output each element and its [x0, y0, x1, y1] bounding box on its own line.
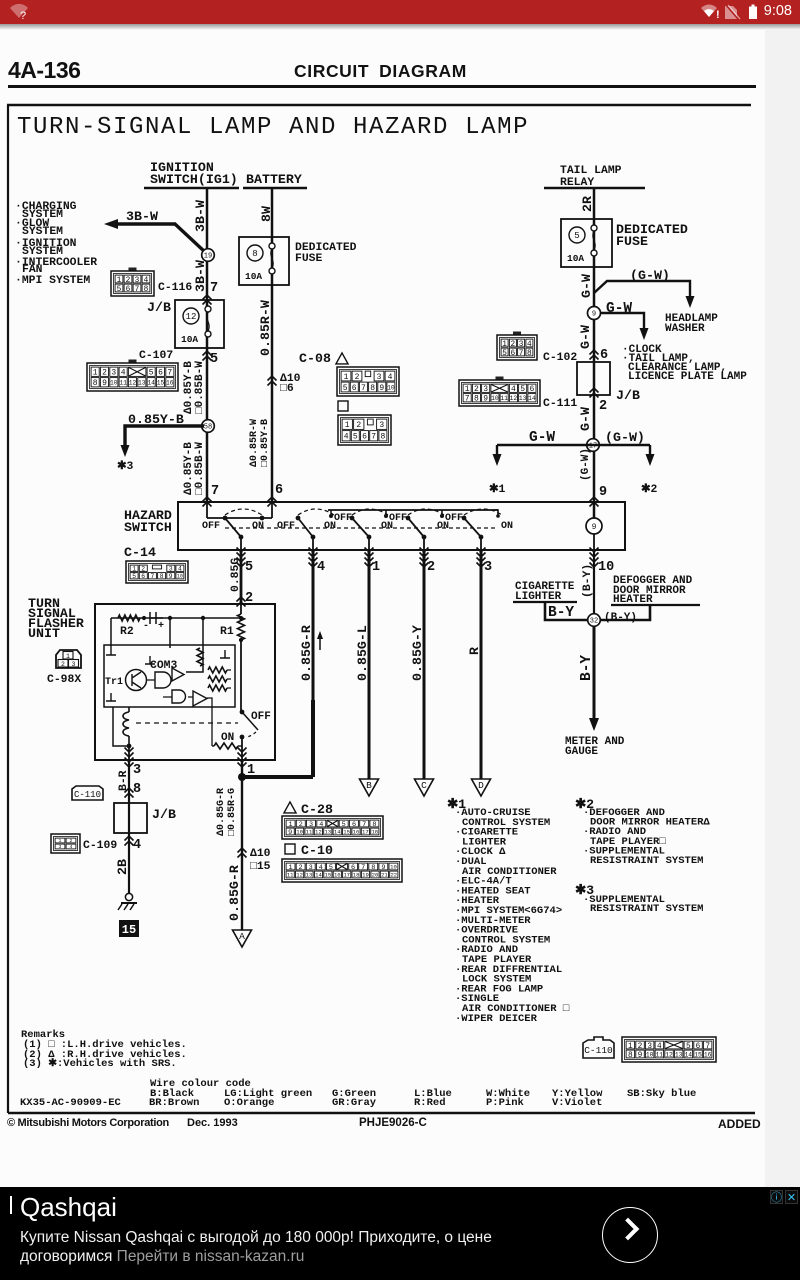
svg-text:8: 8	[370, 384, 375, 393]
hazard lamp 9 wire	[593, 502, 595, 550]
svg-text:3: 3	[111, 369, 116, 378]
svg-text:9: 9	[483, 395, 488, 404]
chevron mid output wire	[238, 848, 247, 858]
svg-text:6: 6	[511, 350, 516, 358]
svg-text:G-W: G-W	[579, 274, 594, 298]
svg-text:(B-Y): (B-Y)	[604, 612, 637, 624]
svg-text:G-W: G-W	[606, 301, 632, 317]
svg-text:4: 4	[344, 433, 349, 442]
svg-text:0.85G-L: 0.85G-L	[355, 625, 370, 681]
svg-text:(3) ✱:Vehicles with SRS.: (3) ✱:Vehicles with SRS.	[23, 1057, 177, 1070]
triangle connector C	[415, 779, 434, 796]
wire 0.85Y-B branch left with arrow *3	[125, 426, 204, 448]
svg-text:B: B	[366, 780, 372, 791]
flasher pin1 exit chevrons	[238, 748, 247, 758]
svg-text:6: 6	[696, 1043, 701, 1051]
svg-text:B-Y: B-Y	[548, 605, 574, 621]
svg-text:4: 4	[121, 369, 126, 378]
svg-text:1: 1	[628, 1043, 633, 1051]
svg-text:13: 13	[324, 829, 331, 836]
connector C-109	[51, 834, 80, 853]
triangle ref C-08	[336, 353, 348, 364]
svg-text:6: 6	[600, 348, 608, 363]
svg-text:8: 8	[144, 286, 149, 294]
flasher pin3 exit chevrons	[125, 748, 134, 758]
node 17	[587, 439, 600, 452]
wire B-Y to meter	[593, 627, 596, 721]
wire tail lamp vertical	[593, 188, 596, 518]
svg-text:4: 4	[388, 373, 393, 382]
svg-text:13: 13	[675, 1051, 683, 1058]
connector C-110 bottom	[622, 1037, 716, 1062]
hazard sw3 dashed arc	[352, 509, 388, 515]
svg-text:9: 9	[288, 829, 292, 837]
connector C-107	[129, 360, 137, 364]
tail lamp relay bus bar	[544, 187, 645, 190]
resistor ladder h1	[208, 667, 227, 673]
svg-text:✱1: ✱1	[489, 483, 506, 496]
svg-text:G-W: G-W	[529, 430, 555, 446]
svg-text:C-14: C-14	[124, 545, 156, 560]
buffer triangle	[193, 691, 207, 706]
svg-text:8: 8	[93, 379, 98, 388]
svg-text:2: 2	[126, 277, 131, 285]
coil left link	[113, 707, 129, 746]
svg-text:12: 12	[129, 380, 137, 387]
hazard sw3 output wire	[368, 537, 370, 550]
svg-text:C-08: C-08	[299, 351, 331, 366]
hazard wire7 stub	[206, 502, 208, 518]
svg-text:10A: 10A	[181, 334, 198, 345]
android status bar	[0, 0, 800, 24]
wire drop *2	[649, 445, 651, 457]
hazard pin3 exit chevron	[477, 548, 486, 558]
connector C-98X	[56, 650, 81, 668]
svg-text:+: +	[158, 621, 164, 632]
svg-text:BR:Brown: BR:Brown	[149, 1097, 199, 1109]
svg-text:7: 7	[371, 433, 376, 442]
svg-text:4: 4	[178, 566, 182, 573]
svg-text:LICENCE PLATE LAMP: LICENCE PLATE LAMP	[628, 371, 747, 383]
node 9 circle	[588, 307, 601, 320]
svg-text:4: 4	[317, 560, 325, 575]
svg-text:10: 10	[177, 574, 183, 580]
svg-text:11: 11	[287, 872, 294, 879]
flasher switch lever	[242, 712, 258, 730]
svg-text:2R: 2R	[580, 196, 595, 212]
svg-text:5: 5	[245, 560, 253, 575]
svg-text:SWITCH(IG1): SWITCH(IG1)	[150, 172, 238, 187]
hazard bus bar upper	[328, 509, 498, 511]
svg-text:3: 3	[379, 421, 384, 430]
connector C-102	[513, 332, 521, 336]
svg-text:9: 9	[169, 573, 173, 580]
svg-text:3: 3	[519, 341, 524, 349]
svg-text:3: 3	[59, 844, 62, 850]
junction block lower box	[114, 803, 147, 833]
arrow up on 0.85G-R wire	[319, 634, 321, 650]
svg-text:10: 10	[646, 1051, 654, 1058]
resistor R1	[240, 604, 242, 614]
svg-text:□6: □6	[280, 383, 294, 395]
svg-text:A: A	[239, 931, 245, 942]
svg-text:5: 5	[502, 350, 507, 358]
svg-text:2: 2	[427, 560, 435, 575]
connector C-110 small	[72, 786, 103, 800]
svg-text:10: 10	[110, 380, 118, 387]
svg-text:10: 10	[598, 560, 614, 575]
svg-text:FUSE: FUSE	[616, 234, 648, 249]
svg-text:9: 9	[599, 485, 607, 500]
svg-text:C-98X: C-98X	[47, 674, 81, 686]
svg-text:OFF: OFF	[334, 513, 352, 524]
svg-text:8: 8	[628, 1052, 633, 1060]
svg-text:1: 1	[372, 560, 380, 575]
junction block box tail	[577, 362, 610, 395]
svg-text:SWITCH: SWITCH	[124, 520, 172, 535]
svg-text:21: 21	[381, 872, 388, 879]
svg-text:C: C	[421, 780, 427, 791]
hazard sw1 lever	[225, 518, 241, 537]
hazard sw2 contact	[296, 516, 301, 521]
svg-text:10: 10	[491, 395, 499, 402]
thick jumper to pin4 wire	[242, 775, 313, 779]
svg-text:0.85G-R: 0.85G-R	[227, 865, 242, 921]
svg-text:0.85G-Y: 0.85G-Y	[410, 625, 425, 681]
wire 0.85G-R pin4 down	[312, 550, 315, 700]
connector C-116	[129, 268, 137, 272]
wire ignition vertical 3B-W	[206, 188, 209, 502]
triangle connector B	[360, 779, 379, 796]
svg-text:C-111: C-111	[543, 398, 577, 410]
svg-text:Δ10: Δ10	[250, 848, 271, 860]
wire 0.85G-L pin1 down	[368, 550, 371, 779]
svg-text:4: 4	[70, 844, 73, 850]
svg-text:13: 13	[519, 395, 527, 402]
svg-text:C-107: C-107	[139, 350, 173, 362]
svg-text:(G-W): (G-W)	[605, 430, 645, 445]
node 58	[202, 420, 215, 433]
svg-text:3: 3	[377, 373, 382, 382]
frame bottom border	[8, 1112, 755, 1114]
svg-text:8: 8	[380, 433, 385, 442]
triangle connector A	[233, 930, 252, 947]
dedicated fuse tail box	[561, 219, 612, 267]
svg-text:J/B: J/B	[616, 388, 640, 403]
svg-text:(G-W): (G-W)	[630, 268, 670, 283]
svg-text:6: 6	[141, 573, 145, 580]
svg-text:3: 3	[483, 385, 488, 394]
hazard sw1 dashed arc	[225, 509, 262, 515]
wire R1 down	[240, 640, 242, 712]
svg-text:15: 15	[325, 872, 332, 879]
resistor ladder vertical	[197, 648, 203, 666]
svg-text:19: 19	[362, 872, 369, 879]
junction dot pin1	[238, 773, 246, 781]
svg-text:3: 3	[135, 277, 140, 285]
defogger drop wire	[601, 605, 650, 620]
svg-text:ON: ON	[501, 521, 513, 532]
svg-text:(B-Y): (B-Y)	[582, 564, 594, 598]
wire (B-Y) pin10 down	[593, 550, 595, 614]
svg-text:OFF: OFF	[445, 513, 463, 524]
svg-text:9: 9	[592, 523, 597, 532]
wire diagonal to node 19	[175, 224, 205, 252]
hazard sw2 output wire	[312, 537, 314, 550]
ladder right rail	[227, 670, 231, 688]
chevron J/B tail exit	[590, 388, 599, 398]
flasher resistor R3	[214, 743, 238, 749]
svg-text:8: 8	[133, 782, 141, 797]
connector C-14	[126, 561, 188, 583]
hazard pin10 exit chevron	[590, 548, 599, 558]
svg-text:7: 7	[151, 573, 155, 580]
svg-text:11: 11	[656, 1051, 664, 1058]
svg-text:4: 4	[133, 838, 141, 853]
svg-text:□15: □15	[250, 861, 271, 873]
svg-text:8W: 8W	[259, 206, 274, 222]
svg-text:12: 12	[665, 1051, 673, 1058]
battery bus bar	[243, 187, 307, 190]
ic pin stubs	[106, 645, 116, 655]
svg-text:COM3: COM3	[150, 660, 178, 672]
svg-text:RESISTRAINT SYSTEM: RESISTRAINT SYSTEM	[590, 855, 703, 867]
chevron C-102 crossing	[590, 350, 599, 360]
svg-text:-: -	[143, 621, 149, 632]
svg-text:10: 10	[296, 829, 303, 836]
flasher top wire with R2 and diode	[111, 617, 241, 619]
svg-text:·MPI SYSTEM: ·MPI SYSTEM	[15, 275, 90, 287]
svg-text:58: 58	[204, 424, 212, 432]
flasher wiring links	[146, 680, 212, 746]
svg-text:9: 9	[592, 311, 596, 319]
svg-text:7: 7	[705, 1043, 710, 1051]
cigarette lighter drop wire	[545, 602, 587, 620]
svg-text:15: 15	[343, 829, 350, 836]
svg-text:14: 14	[334, 829, 341, 836]
svg-text:Δ0.85G-R: Δ0.85G-R	[216, 788, 227, 836]
ground symbol	[125, 893, 132, 900]
svg-text:6: 6	[362, 433, 367, 442]
svg-text:13: 13	[306, 872, 313, 879]
connector C-111	[496, 377, 504, 381]
svg-text:R1: R1	[220, 626, 234, 638]
connector C-110 label box	[583, 1037, 614, 1058]
wire drop *1	[496, 445, 498, 457]
svg-text:13: 13	[138, 380, 146, 387]
svg-text:TURN-SIGNAL LAMP AND HAZARD LA: TURN-SIGNAL LAMP AND HAZARD LAMP	[17, 114, 529, 141]
svg-text:4: 4	[527, 341, 532, 349]
svg-text:10: 10	[390, 864, 397, 871]
svg-text:5: 5	[343, 384, 348, 393]
junction block fuse 12 box	[175, 300, 224, 348]
svg-text:OFF: OFF	[202, 521, 220, 532]
hazard sw5 output wire	[480, 537, 482, 550]
svg-text:1: 1	[93, 369, 98, 378]
svg-text:8: 8	[474, 395, 479, 404]
svg-text:19: 19	[204, 253, 212, 261]
opamp triangle 1	[172, 668, 184, 681]
svg-text:8: 8	[160, 573, 164, 580]
svg-text:V:Violet: V:Violet	[552, 1097, 602, 1109]
svg-text:15: 15	[694, 1051, 702, 1058]
svg-text:C-110: C-110	[74, 790, 101, 800]
svg-text:3: 3	[72, 661, 76, 668]
chevron J/B lower exit	[125, 836, 134, 846]
svg-text:8: 8	[252, 249, 257, 259]
flasher pin1 wire	[241, 737, 243, 760]
svg-text:16: 16	[353, 829, 360, 836]
wire branch (G-W) to headlamp washer	[594, 281, 690, 298]
hazard dashed bus	[225, 527, 498, 529]
label C-10 with square	[285, 844, 295, 854]
resistor R2	[118, 615, 140, 621]
hazard pin5 exit chevron	[237, 548, 246, 558]
svg-text:5: 5	[210, 352, 218, 367]
svg-text:4: 4	[511, 385, 516, 394]
svg-text:R:Red: R:Red	[414, 1097, 446, 1109]
svg-text:2: 2	[61, 661, 65, 668]
wire 0.85G to flasher pin2	[240, 550, 243, 604]
svg-text:3B-W: 3B-W	[126, 209, 158, 224]
dashed link coil to switch	[136, 722, 238, 724]
svg-text:BATTERY: BATTERY	[246, 172, 302, 187]
label C-28 with triangle	[284, 802, 296, 813]
svg-text:14: 14	[528, 395, 536, 402]
hazard lamp circle 9	[586, 518, 602, 534]
diode D1	[150, 612, 163, 624]
svg-text:5: 5	[353, 433, 358, 442]
svg-text:2: 2	[102, 369, 107, 378]
svg-text:1: 1	[345, 421, 350, 430]
svg-text:OFF: OFF	[251, 711, 271, 723]
svg-text:2: 2	[638, 1043, 643, 1051]
svg-text:8: 8	[527, 350, 532, 358]
svg-text:7: 7	[135, 286, 140, 294]
svg-text:J/B: J/B	[147, 300, 171, 315]
hazard link bar	[207, 517, 272, 519]
svg-text:TAIL LAMP: TAIL LAMP	[560, 165, 622, 177]
svg-text:□0.85B-W: □0.85B-W	[194, 361, 206, 414]
svg-text:16: 16	[166, 380, 174, 387]
resistor ladder h3	[208, 685, 227, 691]
svg-text:3: 3	[133, 763, 141, 778]
svg-text:C-10: C-10	[301, 843, 333, 858]
svg-text:C-109: C-109	[83, 840, 117, 852]
svg-text:SYSTEM: SYSTEM	[22, 226, 63, 238]
svg-text:3: 3	[484, 560, 492, 575]
svg-text:□0.85R-G: □0.85R-G	[227, 788, 238, 836]
svg-text:15: 15	[157, 380, 165, 387]
svg-text:C-110: C-110	[584, 1045, 613, 1056]
svg-text:2: 2	[356, 421, 361, 430]
hazard sw2 dashed arc	[298, 509, 334, 515]
svg-text:6: 6	[529, 385, 534, 394]
page footer	[0, 1117, 800, 1135]
svg-text:16: 16	[334, 872, 341, 879]
svg-text:9: 9	[379, 384, 384, 393]
ground ref 15 inverse	[119, 920, 139, 937]
svg-text:✱2: ✱2	[641, 483, 658, 496]
svg-text:5: 5	[149, 369, 154, 378]
ignition switch bus bar	[144, 187, 239, 190]
hazard sw1 output wire	[240, 537, 242, 550]
svg-text:1: 1	[465, 385, 470, 394]
svg-text:D: D	[478, 780, 484, 791]
svg-text:P:Pink: P:Pink	[486, 1097, 524, 1109]
svg-text:B-Y: B-Y	[579, 655, 595, 681]
svg-text:20: 20	[372, 872, 379, 879]
svg-text:OFF: OFF	[277, 521, 295, 532]
svg-text:18: 18	[371, 829, 378, 836]
hazard wire6 stub	[271, 502, 273, 518]
svg-text:14: 14	[315, 872, 322, 879]
svg-text:7: 7	[519, 350, 524, 358]
svg-text:6: 6	[352, 384, 357, 393]
svg-text:2: 2	[355, 373, 360, 382]
flasher unit box	[95, 604, 275, 760]
svg-text:□0.85Y-B: □0.85Y-B	[260, 419, 271, 467]
dedicated fuse battery box	[239, 237, 289, 285]
svg-text:ON: ON	[252, 521, 264, 532]
chevron hazard pin6	[268, 497, 277, 507]
chevron J/B exit	[203, 351, 212, 361]
frame left border	[7, 105, 9, 1113]
svg-text:18: 18	[353, 872, 360, 879]
gate 1	[155, 672, 171, 688]
svg-text:5: 5	[132, 573, 136, 580]
hazard switch box	[178, 502, 625, 550]
transistor Tr1	[126, 670, 147, 691]
svg-text:12: 12	[186, 312, 197, 322]
flasher inner module box	[104, 645, 235, 707]
flasher switch dashed	[246, 732, 256, 737]
wire battery vertical	[271, 188, 274, 502]
chevron flasher pin2	[237, 597, 246, 607]
svg-text:4: 4	[144, 277, 149, 285]
svg-text:10A: 10A	[245, 271, 262, 282]
node 32	[588, 614, 601, 627]
hazard pin4 exit chevron	[309, 548, 318, 558]
chevron hazard pin9	[590, 497, 599, 507]
wire B-R down	[128, 760, 130, 893]
svg-text:5: 5	[574, 231, 579, 241]
hazard sw5 lever	[462, 516, 467, 521]
svg-text:Δ0.85R-W: Δ0.85R-W	[249, 419, 260, 467]
chevron mid battery wire	[268, 376, 277, 386]
svg-text:14: 14	[685, 1051, 693, 1058]
flasher switch OFF	[240, 710, 245, 715]
hazard pin2 exit chevron	[420, 548, 429, 558]
svg-text:14: 14	[147, 380, 155, 387]
hazard pin1 exit chevron	[365, 548, 374, 558]
svg-text:R: R	[467, 647, 482, 655]
svg-text:11: 11	[306, 829, 313, 836]
svg-text:9: 9	[102, 379, 107, 388]
defogger bus	[611, 604, 700, 606]
svg-text:7: 7	[361, 384, 366, 393]
svg-text:4: 4	[657, 1043, 662, 1051]
svg-text:22: 22	[390, 872, 397, 879]
svg-text:2: 2	[141, 566, 145, 573]
svg-text:Tr1: Tr1	[105, 677, 123, 688]
svg-text:17: 17	[362, 829, 369, 836]
square ref below C-08	[338, 401, 348, 411]
svg-text:✱3: ✱3	[117, 460, 134, 473]
svg-text:0.85G-R: 0.85G-R	[299, 625, 314, 681]
svg-text:2: 2	[511, 341, 516, 349]
svg-text:6: 6	[158, 369, 163, 378]
